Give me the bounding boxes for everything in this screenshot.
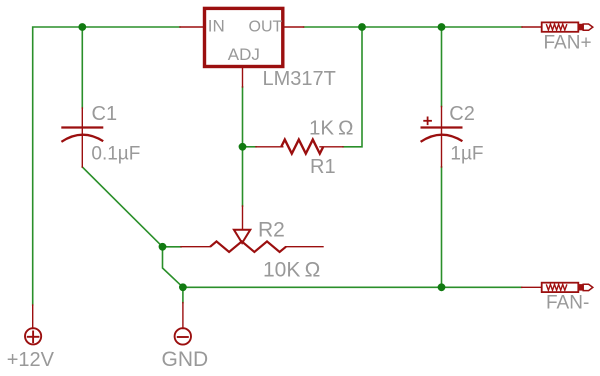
svg-text:FAN+: FAN+ — [544, 33, 592, 54]
svg-text:+12V: +12V — [7, 349, 55, 371]
svg-text:IN: IN — [208, 17, 225, 36]
svg-text:ADJ: ADJ — [228, 45, 260, 64]
svg-text:R2: R2 — [258, 218, 285, 241]
svg-text:C2: C2 — [449, 103, 475, 125]
svg-text:OUT: OUT — [249, 19, 283, 36]
svg-text:FAN-: FAN- — [546, 293, 589, 314]
svg-text:0.1µF: 0.1µF — [91, 144, 140, 165]
svg-text:10K Ω: 10K Ω — [263, 258, 320, 281]
svg-text:1µF: 1µF — [450, 144, 483, 165]
svg-text:C1: C1 — [92, 103, 118, 125]
svg-text:R1: R1 — [310, 156, 336, 178]
svg-text:LM317T: LM317T — [263, 68, 336, 90]
svg-text:1K Ω: 1K Ω — [309, 117, 354, 140]
svg-text:GND: GND — [162, 348, 209, 371]
